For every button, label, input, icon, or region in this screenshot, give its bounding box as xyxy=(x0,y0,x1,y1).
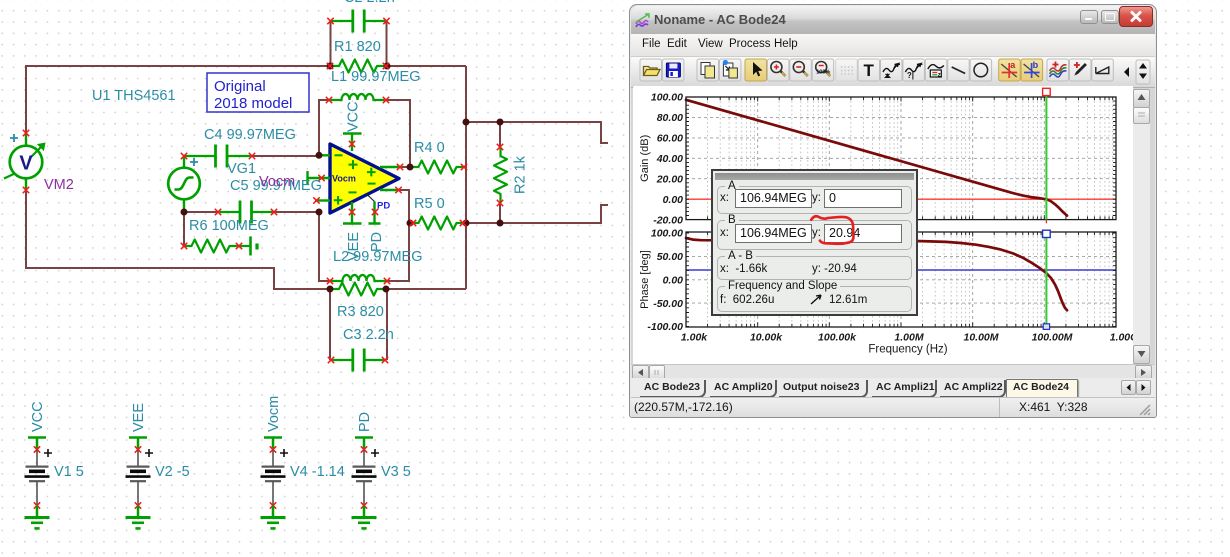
vertical scrollbar xyxy=(1133,89,1150,363)
battery V2 xyxy=(126,438,154,529)
battery V4 xyxy=(261,438,289,529)
red pen annotation xyxy=(805,211,875,259)
svg-text:VCC: VCC xyxy=(30,401,46,432)
pin out- xyxy=(380,189,400,191)
title bar xyxy=(631,6,1155,34)
cursor vertical line gain xyxy=(1045,93,1047,220)
svg-text:R4 0: R4 0 xyxy=(414,140,445,156)
axis ticks xyxy=(686,97,1116,327)
group A-B xyxy=(717,256,912,280)
wire out+ to R4 node xyxy=(400,166,410,168)
svg-text:-20.00: -20.00 xyxy=(653,214,683,226)
svg-text:PD: PD xyxy=(357,412,373,432)
wire R2 top stub xyxy=(499,122,501,147)
capacitor C4 xyxy=(184,145,252,168)
grid horizontal xyxy=(686,117,1116,303)
svg-text:60.00: 60.00 xyxy=(657,133,683,145)
group A xyxy=(717,186,912,214)
svg-text:100.00: 100.00 xyxy=(651,92,683,104)
wire L1 right corner xyxy=(386,100,410,167)
svg-text:V3 5: V3 5 xyxy=(381,464,411,480)
gain curve xyxy=(686,100,1067,216)
wire VG1 bottom to C5 xyxy=(184,211,218,213)
svg-text:Vocm: Vocm xyxy=(266,396,282,432)
annotation box Original 2018 model xyxy=(207,73,309,112)
inductor L2 xyxy=(331,275,387,281)
svg-text:C2 2.2n: C2 2.2n xyxy=(344,0,395,6)
wire C5 to opamp node xyxy=(274,211,319,213)
horizontal scrollbar xyxy=(631,364,1155,379)
svg-text:V4 -1.14: V4 -1.14 xyxy=(290,464,345,480)
cursor B handle xyxy=(1043,230,1051,237)
plot area xyxy=(633,87,1133,368)
status bar xyxy=(631,397,1155,417)
cursor A handle xyxy=(1043,88,1051,95)
wire VM2 top to R1 node xyxy=(26,66,330,133)
svg-text:V2 -5: V2 -5 xyxy=(155,464,190,480)
svg-text:100.00: 100.00 xyxy=(651,228,683,240)
wire right rail to R3 node xyxy=(386,288,466,290)
svg-text:Vocm: Vocm xyxy=(259,174,295,190)
svg-text:R5 0: R5 0 xyxy=(414,196,445,212)
cursor vertical line phase xyxy=(1045,237,1047,326)
pin x marks xyxy=(23,18,503,363)
title text xyxy=(654,12,786,27)
svg-text:VEE: VEE xyxy=(131,403,147,432)
inductor L1 xyxy=(330,94,386,100)
svg-text:b: b xyxy=(1033,60,1039,70)
svg-text:-50.00: -50.00 xyxy=(653,298,683,310)
svg-text:100.00M: 100.00M xyxy=(1032,332,1073,344)
svg-text:Original: Original xyxy=(214,78,266,95)
grid major vertical xyxy=(758,97,1045,327)
svg-text:C3 2.2n: C3 2.2n xyxy=(343,327,394,343)
pin Vocm input xyxy=(308,171,331,185)
svg-text:10.00k: 10.00k xyxy=(750,332,783,344)
wire C2 left vertical xyxy=(330,21,332,66)
svg-text:R6 100MEG: R6 100MEG xyxy=(189,218,269,234)
capacitor C3 xyxy=(331,349,387,372)
wire bottom output rail to open port xyxy=(466,205,608,223)
battery V1 xyxy=(25,438,53,529)
wire top output rail to open port xyxy=(466,122,608,143)
svg-text:U1 THS4561: U1 THS4561 xyxy=(92,88,176,104)
resistor R6 xyxy=(183,240,239,253)
pin input minus xyxy=(319,154,330,156)
svg-text:L1 99.97MEG: L1 99.97MEG xyxy=(331,69,420,85)
svg-text:C4 99.97MEG: C4 99.97MEG xyxy=(204,127,296,143)
capacitor C5 xyxy=(218,201,274,224)
svg-text:Vocm: Vocm xyxy=(332,174,356,184)
maximize button xyxy=(1101,10,1119,24)
pin PD xyxy=(366,194,375,202)
wire VG1 node down to R6 xyxy=(183,212,185,246)
svg-text:1.00G: 1.00G xyxy=(1110,332,1133,344)
window icon xyxy=(635,12,653,29)
toolbar xyxy=(631,57,1155,88)
svg-text:PD: PD xyxy=(369,232,385,252)
cursor A red line xyxy=(686,198,1116,200)
svg-text:VEE: VEE xyxy=(346,232,362,261)
resistor R1 xyxy=(330,60,386,73)
minimize button xyxy=(1080,10,1098,24)
op-amp U1 xyxy=(308,134,403,224)
svg-text:0.00: 0.00 xyxy=(663,274,684,286)
svg-text:VCC: VCC xyxy=(346,101,362,132)
junction dots xyxy=(181,63,504,293)
svg-text:20.00: 20.00 xyxy=(656,173,683,185)
capacitor C2 xyxy=(331,10,387,33)
gain frame xyxy=(686,97,1116,220)
svg-text:VG1: VG1 xyxy=(227,161,256,177)
wire R2 bottom stub xyxy=(499,203,501,223)
svg-text:Phase [deg]: Phase [deg] xyxy=(639,250,651,309)
svg-text:VM2: VM2 xyxy=(44,177,74,193)
svg-text:?|: ?| xyxy=(907,71,914,80)
grid minor vertical xyxy=(708,97,1113,327)
close button xyxy=(1119,6,1153,27)
resistor R2 xyxy=(494,147,507,203)
svg-text:40.00: 40.00 xyxy=(656,153,683,165)
wire C2 right vertical xyxy=(386,21,388,66)
voltmeter VM2 xyxy=(4,133,46,190)
svg-text:10.00M: 10.00M xyxy=(963,332,998,344)
svg-text:z: z xyxy=(938,73,941,79)
wire VM2 bottom loop to R3 node xyxy=(26,190,330,289)
wire C3 right vertical xyxy=(386,289,388,360)
axis labels xyxy=(647,92,683,334)
svg-text:80.00: 80.00 xyxy=(657,112,683,124)
svg-text:2018 model: 2018 model xyxy=(214,95,292,112)
wire C4 to opamp node xyxy=(252,155,319,157)
phase frame xyxy=(686,232,1116,327)
svg-text:100.00k: 100.00k xyxy=(818,332,857,344)
cursor info panel xyxy=(711,169,918,316)
generator VG1 xyxy=(168,156,200,212)
pin out+ xyxy=(380,166,402,168)
toolbar buttons xyxy=(630,57,1156,87)
battery V5 small xyxy=(237,237,257,256)
bode plot xyxy=(634,86,1133,367)
wire L2 right corner xyxy=(387,190,409,281)
svg-text:Gain (dB): Gain (dB) xyxy=(639,135,651,182)
resistor R5 xyxy=(410,217,466,230)
pin VCC xyxy=(343,134,362,152)
menu bar xyxy=(631,34,1155,57)
pin input plus xyxy=(315,199,330,201)
svg-text:R3 820: R3 820 xyxy=(337,304,384,320)
wire right rail vertical xyxy=(465,66,467,289)
analysis window xyxy=(629,4,1157,418)
svg-text:T: T xyxy=(864,61,875,80)
svg-text:R1 820: R1 820 xyxy=(334,39,381,55)
pin VEE xyxy=(343,202,362,224)
svg-text:1.00k: 1.00k xyxy=(681,332,708,344)
resistor R3 xyxy=(330,283,386,296)
svg-text:V: V xyxy=(19,153,33,175)
svg-text:R2 1k: R2 1k xyxy=(513,155,529,194)
svg-text:Frequency (Hz): Frequency (Hz) xyxy=(868,344,947,356)
svg-text:V1 5: V1 5 xyxy=(54,464,84,480)
svg-text:-100.00: -100.00 xyxy=(647,321,683,333)
resistor R4 xyxy=(410,161,466,174)
group B xyxy=(717,220,912,250)
battery V3 xyxy=(352,438,380,529)
svg-text:100%: 100% xyxy=(816,70,830,76)
svg-text:1.00M: 1.00M xyxy=(894,332,923,344)
svg-text:PD: PD xyxy=(377,201,390,212)
tab bar xyxy=(631,378,1155,397)
cursor B blue line xyxy=(686,269,1116,271)
wire L1 left corner xyxy=(319,100,330,155)
group Frequency and Slope xyxy=(717,286,912,312)
wire C3 left vertical xyxy=(329,289,331,360)
wire L2 left corner xyxy=(319,212,330,281)
svg-text:0.00: 0.00 xyxy=(663,194,684,206)
phase curve xyxy=(686,238,1067,310)
wire R1 node to right rail xyxy=(387,65,466,67)
svg-text:50.00: 50.00 xyxy=(657,251,683,263)
